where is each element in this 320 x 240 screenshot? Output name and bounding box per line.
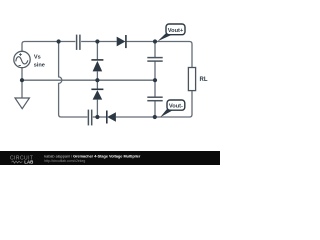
svg-text:LAB: LAB — [24, 160, 33, 165]
svg-text:sine: sine — [34, 62, 45, 68]
svg-text:Vout+: Vout+ — [168, 28, 184, 34]
svg-text:RL: RL — [200, 77, 208, 83]
svg-text:http://circuitlab.com/c2ekeg: http://circuitlab.com/c2ekeg — [44, 159, 85, 163]
svg-text:Vout-: Vout- — [169, 104, 183, 110]
svg-text:kabab alappani / Greinacher 4-: kabab alappani / Greinacher 4-Stage Volt… — [44, 154, 141, 158]
svg-text:Vs: Vs — [34, 55, 41, 61]
